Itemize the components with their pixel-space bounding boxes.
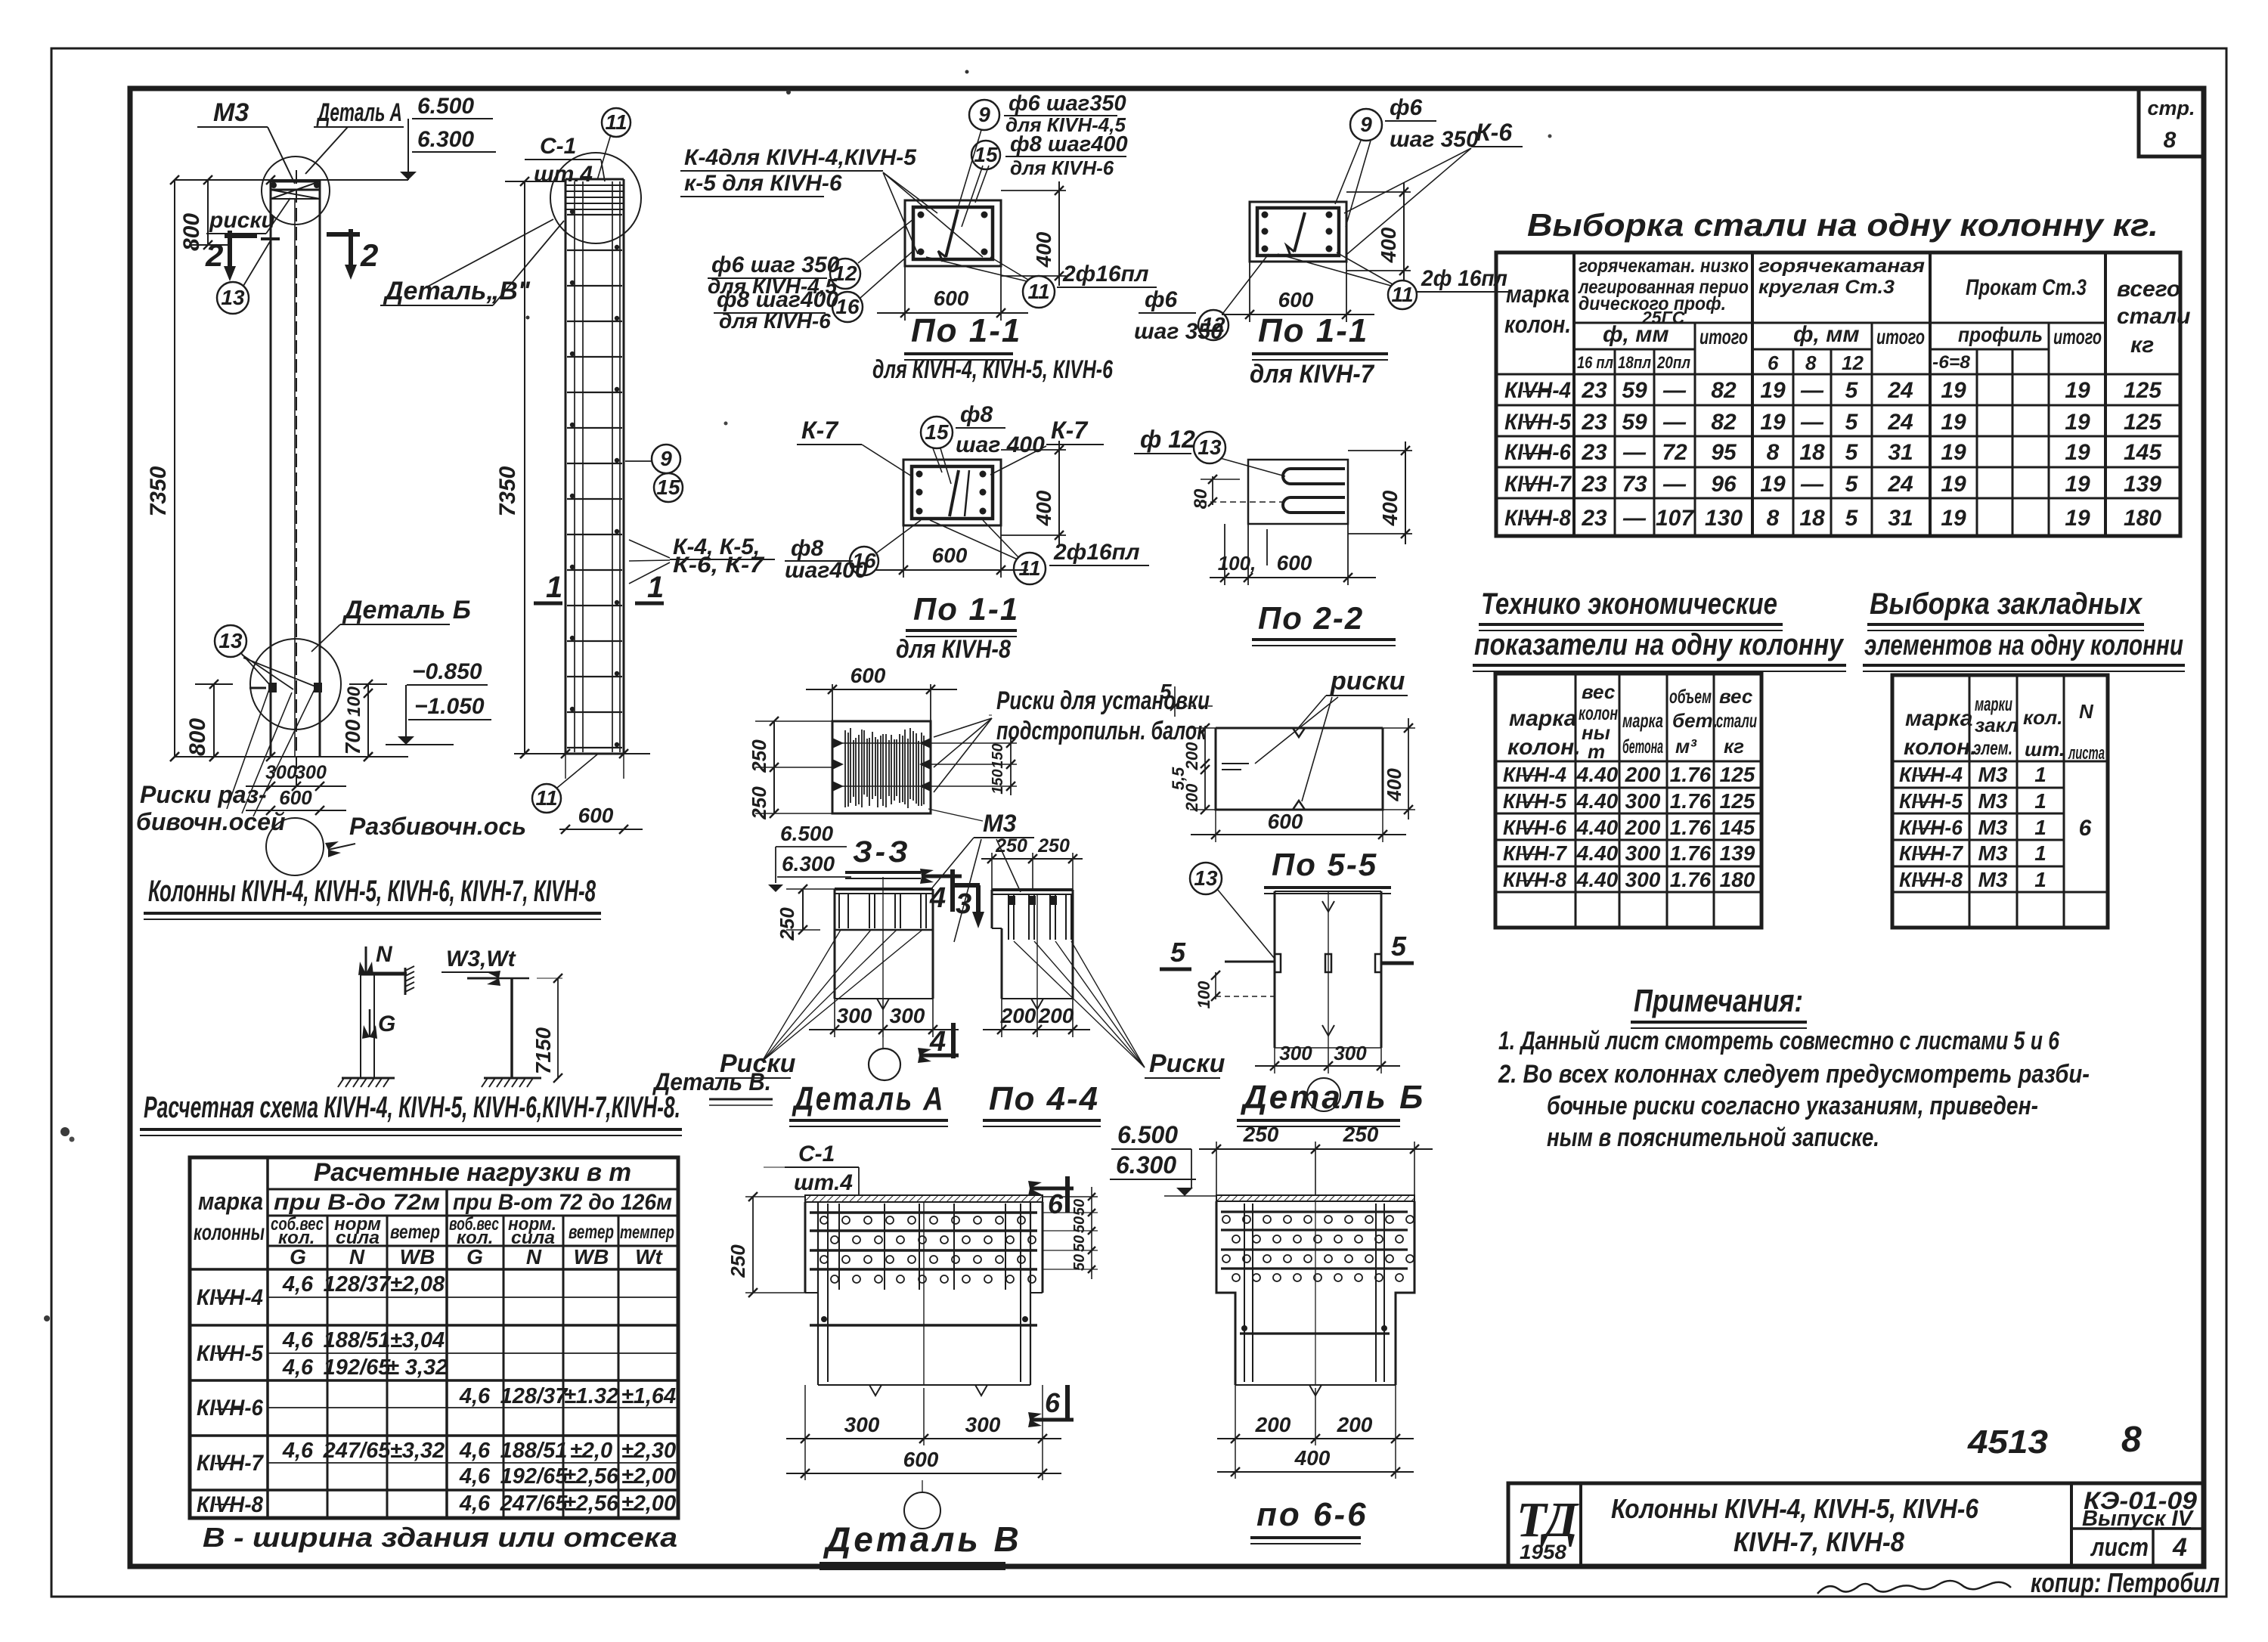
svg-text:—: — (1622, 506, 1647, 531)
svg-text:11: 11 (1027, 280, 1049, 303)
svg-text:элементов на одну колонни: элементов на одну колонни (1864, 630, 2183, 661)
svg-text:Колонны КIVН-4, КIVН-5, КIVН-6: Колонны КIVН-4, КIVН-5, КIVН-6, КIVН-7, … (148, 875, 596, 908)
svg-text:КIVН-5: КIVН-5 (1899, 789, 1963, 813)
svg-text:4.40: 4.40 (1576, 841, 1619, 865)
svg-text:4,6: 4,6 (459, 1464, 491, 1489)
svg-text:Колонны КIVН-4, КIVН-5, КIVН-6: Колонны КIVН-4, КIVН-5, КIVН-6 (1611, 1493, 1979, 1524)
svg-text:200: 200 (1625, 763, 1661, 786)
svg-text:бет.: бет. (1672, 709, 1718, 732)
svg-text:1: 1 (2034, 841, 2046, 865)
stirrup circles in detail V (820, 1216, 1036, 1283)
sheet number 4513 8 (1967, 1420, 2142, 1461)
footnote В - ширина (203, 1522, 677, 1553)
svg-text:200: 200 (1000, 1004, 1036, 1027)
notes (Примечания) (1498, 983, 2090, 1152)
svg-text:бивочн.осей: бивочн.осей (136, 808, 285, 835)
svg-text:100: 100 (344, 686, 364, 717)
callout 11 (top of rebar column) (597, 108, 631, 180)
dims 250 250 left of 3-3 (748, 717, 832, 820)
label С-1 шт.4 (detail V) (764, 1142, 859, 1195)
section 2-2 embedded part (1248, 460, 1348, 524)
svg-text:±2,00: ±2,00 (621, 1464, 676, 1489)
svg-text:96: 96 (1711, 472, 1737, 497)
svg-text:Деталь А: Деталь А (316, 98, 402, 127)
svg-text:стали: стали (2117, 304, 2190, 329)
svg-text:16: 16 (852, 549, 876, 572)
svg-text:600: 600 (850, 664, 886, 687)
svg-text:13: 13 (221, 286, 245, 309)
svg-text:200: 200 (1255, 1413, 1291, 1436)
svg-text:1: 1 (2034, 868, 2046, 891)
svg-text:для КIVН-7: для КIVН-7 (1250, 360, 1375, 389)
svg-text:темпер: темпер (620, 1222, 674, 1243)
svg-text:13: 13 (1194, 866, 1218, 890)
svg-text:2ф16пл: 2ф16пл (1062, 262, 1149, 287)
svg-text:15: 15 (656, 476, 680, 499)
svg-text:-6=8: -6=8 (1932, 352, 1971, 373)
svg-text:1.76: 1.76 (1670, 841, 1712, 865)
svg-text:Примечания:: Примечания: (1634, 983, 1803, 1018)
labels К-4 К-5 К-6 К-7 / ф8 шаг400 / callout 16 (629, 520, 921, 584)
dim 600 above 3-3 (806, 664, 957, 721)
svg-text:5,5: 5,5 (1169, 767, 1188, 790)
callout 9 + ф6 шаг350 (above section A) (959, 91, 1126, 206)
svg-text:300: 300 (844, 1413, 880, 1436)
svg-text:Разбивочн.ось: Разбивочн.ось (349, 813, 526, 840)
svg-text:12: 12 (833, 262, 857, 285)
svg-text:Риски для установки: Риски для установки (996, 686, 1210, 715)
svg-text:300: 300 (965, 1413, 1001, 1436)
svg-text:19: 19 (1941, 440, 1966, 465)
svg-text:18: 18 (1799, 506, 1825, 531)
svg-text:400: 400 (1032, 490, 1055, 526)
callout 13 (detail B plan) (1190, 863, 1275, 962)
svg-text:5: 5 (1170, 937, 1186, 968)
svg-text:Деталь В: Деталь В (823, 1520, 1022, 1559)
svg-text:5: 5 (1160, 680, 1172, 703)
svg-text:8: 8 (1767, 506, 1780, 531)
section 1-1 for KIVN-8 (903, 460, 1001, 525)
dim 250 (detail A) (776, 885, 835, 941)
svg-text:Технико экономические: Технико экономические (1481, 587, 1777, 621)
svg-text:600: 600 (932, 544, 968, 567)
svg-text:бочные риски согласно указания: бочные риски согласно указаниям, приведе… (1547, 1092, 2038, 1120)
dims 300 300 (detail B plan) (1255, 1042, 1400, 1073)
dim 80 (hairpin) (1191, 475, 1283, 509)
svg-text:Деталь„В": Деталь„В" (383, 277, 531, 305)
svg-text:19: 19 (1760, 378, 1786, 403)
svg-text:ф 12: ф 12 (1140, 426, 1195, 453)
svg-text:23: 23 (1581, 440, 1607, 465)
svg-text:N: N (2079, 700, 2094, 723)
svg-text:59: 59 (1622, 410, 1647, 435)
svg-text:1.76: 1.76 (1670, 789, 1712, 813)
svg-text:Риски раз-: Риски раз- (140, 781, 267, 808)
dim 600 (view 5-5) (1191, 810, 1406, 842)
svg-text:6.500: 6.500 (417, 94, 474, 119)
top dimension line (170, 175, 408, 184)
label риски (206, 198, 290, 234)
svg-text:300: 300 (1625, 841, 1661, 865)
svg-text:200: 200 (1182, 742, 1201, 770)
hatch scribble in 3-3 (845, 728, 924, 808)
dim 100 (detail B plan) (1194, 971, 1275, 1008)
svg-text:К-6: К-6 (1476, 119, 1512, 146)
svg-text:закл: закл (1975, 714, 2019, 736)
svg-text:—: — (1800, 410, 1824, 435)
detail B plan view (1275, 891, 1381, 1048)
svg-text:М3: М3 (1978, 868, 2008, 891)
svg-text:11: 11 (1018, 556, 1040, 580)
label Деталь В (small, left) (652, 1068, 773, 1105)
svg-text:1: 1 (647, 571, 664, 604)
svg-text:±2,00: ±2,00 (621, 1492, 676, 1516)
svg-text:ф6: ф6 (1390, 95, 1423, 120)
dim 800 bottom (185, 680, 233, 761)
svg-text:стали: стали (1716, 709, 1757, 732)
svg-text:1. Данный лист смотреть совмес: 1. Данный лист смотреть совместно с лист… (1498, 1027, 2060, 1055)
svg-text:По 1-1: По 1-1 (913, 591, 1019, 627)
svg-text:Прокат Ст.3: Прокат Ст.3 (1966, 275, 2087, 300)
label Деталь А (305, 98, 404, 174)
svg-text:шаг 350: шаг 350 (1390, 127, 1479, 152)
signature scribble (1817, 1581, 2011, 1594)
svg-text:К-7: К-7 (1051, 417, 1089, 444)
svg-text:7350: 7350 (495, 466, 520, 516)
dim 800 top (179, 180, 231, 251)
svg-text:24: 24 (1887, 378, 1913, 403)
svg-text:11: 11 (1391, 283, 1413, 306)
svg-text:итого: итого (1876, 325, 1925, 349)
svg-text:300: 300 (890, 1004, 925, 1027)
svg-text:139: 139 (1720, 841, 1755, 865)
svg-text:6.500: 6.500 (1117, 1121, 1178, 1148)
svg-text:4,6: 4,6 (282, 1272, 314, 1297)
svg-text:±1,64: ±1,64 (621, 1384, 676, 1408)
dims 300 300 600 (detail V) (786, 1385, 1061, 1480)
svg-text:По 1-1: По 1-1 (911, 312, 1021, 349)
svg-text:По 4-4: По 4-4 (989, 1080, 1099, 1117)
svg-text:КIVН-6: КIVН-6 (1899, 816, 1963, 839)
dim 400 (section 2-2) (1348, 441, 1412, 544)
svg-text:19: 19 (1941, 506, 1966, 531)
svg-text:Деталь Б: Деталь Б (342, 596, 471, 624)
svg-text:М3: М3 (983, 810, 1017, 837)
svg-text:КIVН-5: КIVН-5 (1503, 789, 1566, 813)
svg-text:300: 300 (1334, 1042, 1367, 1064)
svg-text:800: 800 (185, 718, 210, 756)
svg-text:КIVН-4: КIVН-4 (1899, 763, 1963, 786)
elevation -0.850 / -1.050 (386, 659, 491, 745)
callout 11 (bottom) (532, 754, 597, 813)
dim 400 (section A) (1001, 181, 1066, 286)
svg-text:4,6: 4,6 (459, 1384, 491, 1408)
svg-text:—: — (1662, 378, 1687, 403)
svg-text:247/65: 247/65 (323, 1439, 392, 1463)
svg-text:600: 600 (1277, 551, 1312, 575)
svg-text:4.40: 4.40 (1576, 868, 1619, 891)
callout 11 + 2ф16пл (section A) (926, 257, 1157, 308)
svg-text:КIVН-4: КIVН-4 (1504, 378, 1571, 403)
dims 50x5 (detail V right) (1043, 1187, 1098, 1279)
svg-text:Расчетная схема КIVН-4, КIVН-5: Расчетная схема КIVН-4, КIVН-5, КIVН-6,К… (144, 1091, 680, 1124)
svg-text:400: 400 (1032, 231, 1055, 268)
title По 1-1 (A) (872, 312, 1114, 384)
svg-text:4: 4 (929, 1026, 946, 1058)
dims 250 250 above view 4-4 (981, 835, 1083, 890)
svg-text:600: 600 (1278, 288, 1314, 311)
callouts 9 and 15 (625, 445, 683, 502)
svg-text:200: 200 (1337, 1413, 1373, 1436)
svg-text:шт.4: шт.4 (794, 1170, 853, 1195)
svg-text:4: 4 (2172, 1533, 2187, 1562)
svg-text:600: 600 (903, 1448, 939, 1471)
svg-text:72: 72 (1662, 440, 1687, 465)
title По 2-2 (1252, 600, 1396, 646)
dim 5 (top left of 5-5) (1160, 680, 1216, 717)
svg-text:600: 600 (279, 786, 312, 809)
svg-text:18пл: 18пл (1618, 353, 1651, 372)
title По 1-1 (C) (896, 591, 1019, 664)
svg-text:150: 150 (990, 769, 1006, 794)
detail A circle on column top (262, 156, 330, 225)
svg-text:По 2-2: По 2-2 (1258, 600, 1364, 636)
svg-text:80: 80 (1191, 488, 1211, 509)
svg-text:объем: объем (1669, 685, 1712, 708)
svg-text:т: т (1588, 740, 1605, 763)
axis circle under column (266, 818, 324, 875)
svg-text:250: 250 (748, 739, 770, 773)
svg-text:50: 50 (1071, 1216, 1088, 1233)
svg-text:1.76: 1.76 (1670, 763, 1712, 786)
view 4-4 drawing (992, 890, 1073, 1009)
svg-text:элем.: элем. (1973, 736, 2012, 759)
detail A drawing (835, 877, 933, 1009)
svg-text:всего: всего (2117, 277, 2180, 302)
svg-text:73: 73 (1622, 472, 1647, 497)
svg-text:М3: М3 (1978, 789, 2008, 813)
section 1-1 for KIVN-4,5,6 (905, 200, 1001, 266)
title block right cells (2082, 1487, 2197, 1562)
svg-text:КIVН-6: КIVН-6 (1504, 440, 1571, 465)
title По 1-1 (B) (1250, 312, 1388, 389)
svg-text:колон.: колон. (1904, 735, 1977, 760)
svg-text:марка: марка (1509, 706, 1576, 731)
label риски (view 5-5) (1255, 667, 1408, 801)
svg-text:8: 8 (1767, 440, 1780, 465)
svg-text:5: 5 (1391, 931, 1407, 962)
svg-text:К-4для КIVН-4,КIVН-5: К-4для КIVН-4,КIVН-5 (684, 145, 917, 170)
svg-text:15: 15 (974, 143, 998, 166)
svg-text:250: 250 (1343, 1123, 1379, 1146)
svg-text:200: 200 (1625, 816, 1661, 839)
svg-text:19: 19 (2065, 506, 2090, 531)
svg-text:—: — (1622, 440, 1647, 465)
column elevation with reinforcement (565, 179, 624, 754)
title Деталь В (820, 1520, 1022, 1569)
leader lines риски (right) (1014, 941, 1225, 1078)
table: steel selection per column (1496, 207, 2190, 536)
svg-text:КIVН-7: КIVН-7 (1899, 841, 1963, 865)
svg-text:ф8: ф8 (960, 402, 993, 427)
dim 400 (section B) (1346, 183, 1411, 281)
svg-text:ф, мм: ф, мм (1603, 322, 1669, 347)
svg-text:колонны: колонны (194, 1220, 265, 1245)
svg-text:по 6-6: по 6-6 (1256, 1496, 1368, 1533)
svg-text:ф6 шаг350: ф6 шаг350 (1009, 91, 1126, 116)
main title: Колонны ... (144, 875, 601, 919)
svg-text:Деталь Б: Деталь Б (1240, 1079, 1425, 1116)
svg-text:G: G (378, 1012, 395, 1036)
svg-text:19: 19 (1760, 410, 1786, 435)
table: embedded elements selection (1863, 587, 2185, 928)
label Деталь Б (311, 596, 471, 652)
svg-text:копир: Петробил: копир: Петробил (2031, 1567, 2220, 1598)
svg-text:13: 13 (1198, 435, 1222, 459)
dims 100 600 (section 2-2) (1210, 524, 1376, 585)
svg-text:145: 145 (1720, 816, 1755, 839)
svg-text:11: 11 (535, 786, 557, 810)
svg-text:12: 12 (1842, 352, 1864, 374)
bottom dim of rebar column (514, 749, 650, 834)
svg-text:5: 5 (1845, 506, 1859, 531)
elevation marks 6.500 / 6.300 (400, 94, 496, 180)
svg-text:700: 700 (341, 719, 364, 754)
svg-text:±2,56: ±2,56 (564, 1464, 619, 1489)
svg-text:247/65: 247/65 (500, 1492, 569, 1516)
svg-text:8: 8 (1805, 352, 1817, 374)
svg-text:12: 12 (1201, 313, 1225, 336)
svg-text:6.300: 6.300 (417, 127, 474, 152)
svg-text:для КIVН-6: для КIVН-6 (1010, 156, 1114, 179)
svg-text:2: 2 (205, 237, 223, 273)
svg-text:180: 180 (2124, 506, 2161, 531)
svg-text:N: N (526, 1245, 542, 1269)
svg-text:600: 600 (934, 287, 969, 310)
svg-text:горячекатаная: горячекатаная (1758, 256, 1925, 277)
callout 16 + ф8 шаг400 (left of section A) (714, 249, 915, 333)
svg-text:300: 300 (295, 762, 327, 783)
svg-text:59: 59 (1622, 378, 1647, 403)
label К-7 (left of section C) (797, 417, 912, 476)
svg-text:подстропильн. балок: подстропильн. балок (996, 717, 1207, 745)
svg-text:23: 23 (1581, 472, 1607, 497)
svg-text:6: 6 (2079, 816, 2092, 841)
svg-text:круглая Ст.3: круглая Ст.3 (1758, 277, 1895, 298)
svg-text:М3: М3 (213, 98, 249, 127)
dims 200 200 (view 4-4) (983, 999, 1090, 1037)
axis circle (detail A) (869, 1037, 900, 1080)
section marks 5 (detail B plan) (1160, 931, 1414, 969)
label З-З (845, 835, 921, 878)
svg-text:16: 16 (835, 295, 860, 318)
label М3 with leaders (928, 809, 1034, 942)
svg-text:1.76: 1.76 (1670, 816, 1712, 839)
callout 15 + ф8 шаг400 (above section A) (962, 132, 1128, 227)
svg-text:300: 300 (1625, 868, 1661, 891)
svg-text:В - ширина здания или отсека: В - ширина здания или отсека (203, 1522, 677, 1553)
svg-text:G: G (290, 1245, 306, 1269)
svg-text:4,6: 4,6 (282, 1328, 314, 1352)
titles Деталь А / По 4-4 (789, 1080, 1101, 1126)
svg-text:N: N (349, 1245, 365, 1269)
scan speckles (44, 70, 1552, 1322)
svg-text:Wt: Wt (635, 1245, 663, 1269)
svg-text:50: 50 (1071, 1235, 1088, 1252)
svg-text:250: 250 (727, 1244, 749, 1278)
table: design loads (190, 1157, 678, 1518)
svg-text:400: 400 (1378, 490, 1402, 526)
section marks 1-1 (534, 571, 664, 604)
svg-text:4,6: 4,6 (282, 1355, 314, 1380)
svg-text:±3,32: ±3,32 (390, 1439, 445, 1463)
svg-text:М3: М3 (1978, 816, 2008, 839)
svg-text:КIVН-7, КIVН-8: КIVН-7, КIVН-8 (1734, 1526, 1904, 1557)
svg-text:24: 24 (1887, 472, 1913, 497)
triangles on 3-3 left edge (832, 738, 931, 792)
axis circle (detail V) (904, 1480, 940, 1529)
svg-text:6.500: 6.500 (780, 822, 833, 845)
svg-text:95: 95 (1711, 440, 1737, 465)
svg-text:19: 19 (1941, 410, 1966, 435)
svg-text:1958: 1958 (1520, 1541, 1566, 1563)
table: technical-economic indicators (1473, 587, 1846, 928)
svg-text:—: — (1800, 472, 1824, 497)
title Деталь Б (1237, 1079, 1425, 1126)
svg-text:19: 19 (2065, 410, 2090, 435)
load scheme sketch 1 (338, 942, 414, 1087)
callout 13 + ф12 (section 2-2) (1134, 426, 1285, 476)
svg-text:250: 250 (1243, 1123, 1279, 1146)
label риски разбивочн. осей (136, 689, 314, 835)
svg-text:риски: риски (1330, 667, 1405, 696)
axis circle (detail B plan) (1307, 1078, 1340, 1111)
svg-text:±3,04: ±3,04 (390, 1328, 445, 1352)
TD logo (1517, 1492, 1579, 1563)
elevation 6.500/6.300 (left of 3-3 lower) (768, 822, 851, 892)
svg-text:6.300: 6.300 (1116, 1151, 1176, 1179)
svg-text:2ф16пл: 2ф16пл (1053, 540, 1140, 565)
svg-text:24: 24 (1887, 410, 1913, 435)
section marks 4 and 3 (between details) (920, 869, 984, 928)
svg-text:ТД: ТД (1517, 1492, 1579, 1548)
svg-text:2: 2 (360, 237, 378, 273)
svg-text:5: 5 (1845, 472, 1859, 497)
svg-text:139: 139 (2124, 472, 2161, 497)
svg-text:профиль: профиль (1958, 323, 2043, 346)
label Деталь В (380, 221, 564, 305)
svg-text:188/51: 188/51 (324, 1328, 391, 1352)
svg-text:107: 107 (1656, 506, 1694, 531)
view 3-3 with installation marks (832, 721, 931, 813)
title block (1508, 1483, 2204, 1566)
svg-text:—: — (1662, 410, 1687, 435)
svg-text:125: 125 (1720, 789, 1755, 813)
svg-text:19: 19 (1941, 472, 1966, 497)
svg-text:кг: кг (2130, 333, 2154, 358)
svg-text:—: — (1800, 378, 1824, 403)
svg-text:300: 300 (1279, 1042, 1312, 1064)
svg-text:шт.: шт. (2025, 738, 2065, 761)
svg-text:4: 4 (929, 882, 946, 914)
svg-text:4513: 4513 (1967, 1424, 2048, 1461)
svg-text:19: 19 (1941, 378, 1966, 403)
svg-text:−0.850: −0.850 (412, 659, 482, 684)
svg-text:400: 400 (1377, 227, 1400, 263)
svg-text:К-7: К-7 (801, 417, 839, 444)
svg-text:125: 125 (2124, 378, 2162, 403)
svg-text:колон.: колон. (1504, 311, 1571, 338)
